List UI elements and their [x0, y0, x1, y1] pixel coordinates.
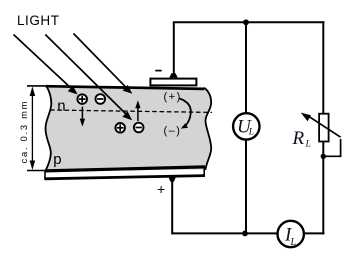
- light ray arrow 1: [14, 35, 78, 95]
- slab right wavy edge: [204, 88, 211, 170]
- svg-text:L: L: [305, 140, 311, 150]
- svg-text:ca. 0.3 mm: ca. 0.3 mm: [19, 100, 29, 163]
- wire right rail upper: [322, 21, 324, 114]
- wire middle rail upper: [245, 22, 247, 113]
- hole carrier circle 1 (+): [77, 94, 87, 104]
- label - (negative terminal): [155, 70, 161, 72]
- junction node top: [243, 19, 249, 25]
- semiconductor slab body: [46, 86, 212, 170]
- bottom contact blob: [169, 177, 176, 181]
- bottom electrode contact bar: [45, 166, 205, 180]
- voltmeter U_L: [233, 113, 259, 139]
- wire right rail lower: [322, 142, 324, 235]
- hole drift arrow (down): [80, 107, 85, 127]
- light ray arrow 3: [74, 34, 133, 94]
- svg-text:+: +: [157, 181, 165, 197]
- slab left wavy edge: [46, 86, 52, 170]
- thickness dimension arrow ca. 0.3 mm: [27, 86, 45, 171]
- top contact blob: [169, 73, 177, 78]
- wire from bottom electrode: [172, 181, 277, 234]
- svg-text:p: p: [53, 151, 61, 168]
- svg-text:L: L: [290, 237, 297, 248]
- electron carrier circle 2 (-): [134, 123, 144, 133]
- field curved arrow: [180, 99, 191, 129]
- svg-text:R: R: [292, 128, 305, 149]
- electron carrier circle 1 (-): [96, 94, 106, 104]
- pn junction dashed line: [50, 110, 212, 112]
- electron drift arrow (up): [135, 100, 140, 121]
- rheostat wiper arrow: [301, 113, 341, 138]
- svg-text:L: L: [248, 128, 254, 138]
- wire middle rail lower: [245, 140, 247, 235]
- light ray arrow 2: [45, 35, 132, 121]
- ammeter I_L: [278, 221, 304, 248]
- svg-text:LIGHT: LIGHT: [17, 13, 60, 28]
- resistor R_L body: [319, 114, 329, 142]
- svg-text:n: n: [57, 97, 65, 114]
- slab top edge line: [46, 86, 205, 89]
- junction node bottom: [242, 231, 248, 237]
- rheostat wiper tail wire: [322, 139, 340, 156]
- top electrode contact bar: [150, 79, 196, 86]
- wire ammeter to right rail: [304, 232, 324, 234]
- hole carrier circle 2 (+): [115, 123, 125, 133]
- svg-text:(+): (+): [164, 91, 182, 103]
- wire top electrode to top rail: [173, 22, 175, 75]
- wire top rail: [173, 21, 324, 23]
- junction node wiper: [321, 154, 326, 159]
- svg-text:(–): (–): [164, 125, 182, 137]
